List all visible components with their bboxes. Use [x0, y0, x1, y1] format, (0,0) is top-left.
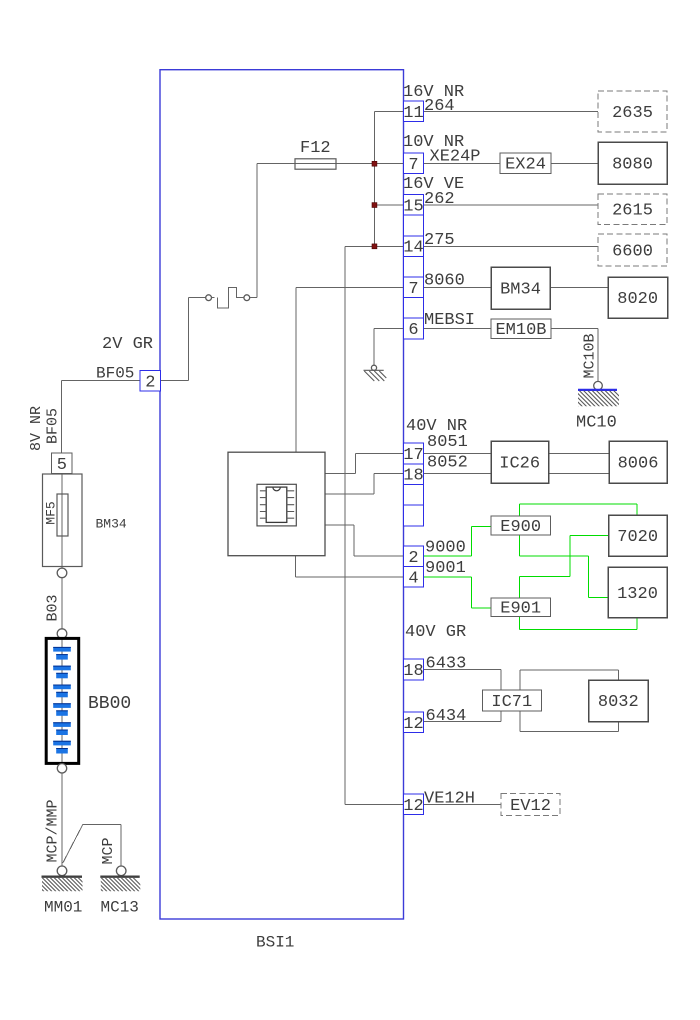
svg-text:E901: E901 [500, 599, 541, 618]
component E901 [491, 598, 551, 617]
connector pin 15 [403, 195, 423, 217]
green wire E900 top to 7020 [520, 504, 638, 516]
svg-text:2635: 2635 [612, 104, 653, 123]
wire MEBSI to EM10B [424, 328, 492, 330]
component EM10B [491, 319, 551, 339]
svg-text:8032: 8032 [598, 693, 639, 712]
component IC71 [482, 690, 541, 711]
svg-text:2615: 2615 [612, 202, 653, 221]
red junction node pin15 feed [372, 203, 377, 208]
component 2635 dashed [598, 91, 667, 132]
connector pin 14 [403, 236, 423, 258]
connector pin 18 (6433) [403, 659, 423, 681]
svg-text:17: 17 [403, 446, 423, 465]
red junction node pin7 feed [372, 161, 377, 166]
wire 275 to 6600 [424, 245, 599, 247]
svg-text:IC26: IC26 [499, 455, 540, 474]
svg-text:BM34: BM34 [96, 517, 127, 532]
svg-text:EV12: EV12 [510, 797, 551, 816]
svg-text:8V NR: 8V NR [28, 406, 45, 451]
svg-text:B03: B03 [45, 594, 62, 621]
wire 6434 [424, 711, 502, 722]
connector empty box c [404, 298, 424, 319]
svg-text:MC10: MC10 [576, 414, 617, 433]
svg-text:8052: 8052 [427, 454, 468, 473]
wire 264 internal [374, 111, 403, 113]
svg-text:MC13: MC13 [101, 899, 139, 917]
svg-text:8080: 8080 [612, 156, 653, 175]
svg-text:BF05: BF05 [45, 408, 62, 444]
svg-text:6600: 6600 [612, 242, 653, 261]
wire long vertical to VE12H [344, 246, 346, 804]
component 8080 [598, 142, 667, 184]
connector pin 7 (XE24P) [404, 153, 424, 175]
component 6600 dashed [598, 234, 667, 266]
component 2615 dashed [598, 194, 667, 225]
connector empty box b [404, 256, 424, 277]
terminal below battery [57, 764, 66, 773]
svg-text:12: 12 [403, 797, 423, 816]
svg-text:MCP/MMP: MCP/MMP [45, 799, 62, 862]
svg-text:2V GR: 2V GR [102, 335, 153, 354]
svg-text:8020: 8020 [617, 290, 658, 309]
CPU IC symbol [257, 484, 296, 526]
connector pin 17 [403, 443, 423, 465]
svg-text:BF05: BF05 [96, 365, 134, 383]
connector pin 12 (VE12H) [403, 794, 423, 816]
wire 262 to 2615 [424, 204, 599, 206]
wire VE12H to EV12 [424, 803, 502, 805]
svg-text:MCP: MCP [100, 837, 117, 864]
svg-text:F12: F12 [300, 139, 331, 158]
wire 9000 internal [325, 525, 404, 556]
wire 8052 to IC26 [424, 473, 492, 475]
battery BB00 case [46, 638, 78, 763]
svg-text:9001: 9001 [425, 559, 466, 578]
svg-text:4: 4 [408, 569, 418, 588]
svg-text:8060: 8060 [424, 272, 465, 291]
svg-text:18: 18 [403, 662, 423, 681]
fuse BM34 element [57, 494, 68, 536]
wire 8060 internal [296, 287, 404, 452]
svg-text:11: 11 [403, 104, 423, 123]
svg-text:7: 7 [408, 156, 418, 175]
green wire E900 bottom to 1320 [520, 535, 608, 598]
svg-text:5: 5 [57, 456, 67, 475]
BSI1 control unit outline [160, 70, 404, 919]
connector empty box e [404, 505, 424, 526]
wire branch to MC13 [63, 824, 121, 866]
connector pin 18 [403, 464, 423, 486]
wire 6433 [424, 669, 502, 690]
wire 8060 to BM34 [424, 286, 492, 288]
wire 264 to 2635 [424, 111, 599, 113]
svg-text:6433: 6433 [426, 655, 467, 674]
svg-text:12: 12 [403, 715, 423, 734]
svg-text:264: 264 [424, 97, 455, 116]
svg-text:275: 275 [424, 231, 455, 250]
connector empty box a [404, 215, 424, 236]
svg-text:BSI1: BSI1 [256, 934, 294, 952]
switch contact right terminal [244, 295, 250, 301]
svg-text:14: 14 [403, 239, 423, 258]
svg-text:E900: E900 [500, 518, 541, 537]
svg-text:8051: 8051 [427, 433, 468, 452]
wire MCP/MMP [61, 773, 63, 866]
battery cells [53, 647, 71, 754]
wire 9001 internal [296, 556, 404, 577]
wire IC71 loop to 8032 [520, 670, 619, 731]
CPU box [228, 452, 325, 556]
component 8020 [608, 277, 668, 318]
terminal above battery [57, 629, 67, 639]
svg-text:2: 2 [408, 549, 418, 568]
ground MM01 [30, 866, 92, 892]
wire EX24 to 8080 [551, 163, 598, 165]
component E900 [491, 516, 551, 535]
connector pin 2 [404, 546, 424, 568]
battery centerline [61, 638, 63, 763]
terminal below BM34 [57, 568, 67, 578]
svg-text:1320: 1320 [617, 585, 658, 604]
wire 8051 internal [325, 453, 404, 473]
wire IC26 to 8006 lower [549, 473, 610, 475]
svg-text:7: 7 [408, 280, 418, 299]
connector pin 2 left [140, 371, 161, 393]
component EV12 dashed [501, 794, 560, 816]
component EX24 [500, 153, 551, 173]
connector pin 5 [52, 453, 73, 475]
svg-text:MEBSI: MEBSI [424, 311, 475, 330]
svg-text:BM34: BM34 [500, 280, 541, 299]
svg-text:EM10B: EM10B [495, 321, 546, 340]
component 8032 [589, 680, 648, 722]
wire XE24P to EX24 [424, 163, 501, 165]
wire bus vertical (pins 11-14 feed) [373, 112, 375, 247]
wire BM34 to 8020 [550, 286, 608, 288]
wire B03 [61, 578, 63, 629]
component 7020 [609, 515, 668, 556]
wire BF05 from pin 2 to switch [62, 298, 206, 381]
svg-text:8006: 8006 [618, 455, 659, 474]
svg-text:XE24P: XE24P [430, 148, 481, 167]
svg-text:MC10B: MC10B [582, 333, 599, 378]
component BM34 relay box [491, 267, 550, 309]
connector pin 7 (8060) [404, 277, 424, 299]
switch contact left terminal [206, 295, 212, 301]
svg-text:40V GR: 40V GR [405, 623, 466, 642]
ground inside BSI (MEBSI) [364, 365, 387, 381]
svg-text:7020: 7020 [617, 528, 658, 547]
wire 8051 to IC26 [424, 452, 492, 454]
green wire E901 top to 7020 [520, 536, 609, 598]
wire 8052 internal [325, 474, 404, 495]
wire EM10B to ground MC10 [551, 329, 598, 383]
fuse BM34 centerline [61, 474, 63, 569]
connector pin 11 [403, 101, 423, 123]
wire 275 internal [345, 245, 404, 247]
connector pin 6 [404, 318, 424, 340]
svg-text:MM01: MM01 [44, 899, 82, 917]
svg-text:EX24: EX24 [505, 156, 546, 175]
red junction node pin14 feed [372, 244, 377, 249]
component IC26 [491, 441, 549, 483]
green wire 9000 to E900 [424, 526, 492, 556]
wire switch to fuse F12 [256, 164, 258, 298]
svg-text:15: 15 [403, 197, 423, 216]
svg-text:18: 18 [403, 467, 423, 486]
svg-text:MF5: MF5 [44, 501, 59, 524]
wire IC26 to 8006 upper [549, 452, 610, 454]
fuse F12 body [295, 159, 336, 169]
green wire 9001 to E901 [424, 577, 492, 608]
component 8006 [609, 441, 667, 483]
fuse BM34 outer box [43, 474, 83, 567]
wire from fuse to pin 7 [257, 163, 404, 165]
wire 262 internal [374, 204, 403, 206]
green wire E901 bottom to 1320 [520, 617, 638, 630]
svg-text:9000: 9000 [425, 539, 466, 558]
switch blade zigzag [212, 287, 257, 308]
svg-text:BB00: BB00 [88, 694, 131, 714]
svg-text:6: 6 [408, 321, 418, 340]
ground MC13 [89, 866, 147, 892]
ground MC10 [562, 381, 630, 407]
wire VE12H internal [345, 803, 404, 805]
svg-text:VE12H: VE12H [424, 790, 475, 809]
component 1320 [608, 567, 667, 618]
svg-text:262: 262 [424, 190, 455, 209]
svg-text:6434: 6434 [426, 707, 467, 726]
svg-text:2: 2 [145, 373, 155, 392]
wire MEBSI internal to ground [374, 329, 404, 366]
wire 8V NR drop [61, 381, 63, 453]
connector pin 4 [404, 567, 424, 589]
svg-text:IC71: IC71 [491, 693, 532, 712]
connector empty box d [404, 485, 424, 506]
connector pin 12 (6434) [403, 712, 423, 734]
